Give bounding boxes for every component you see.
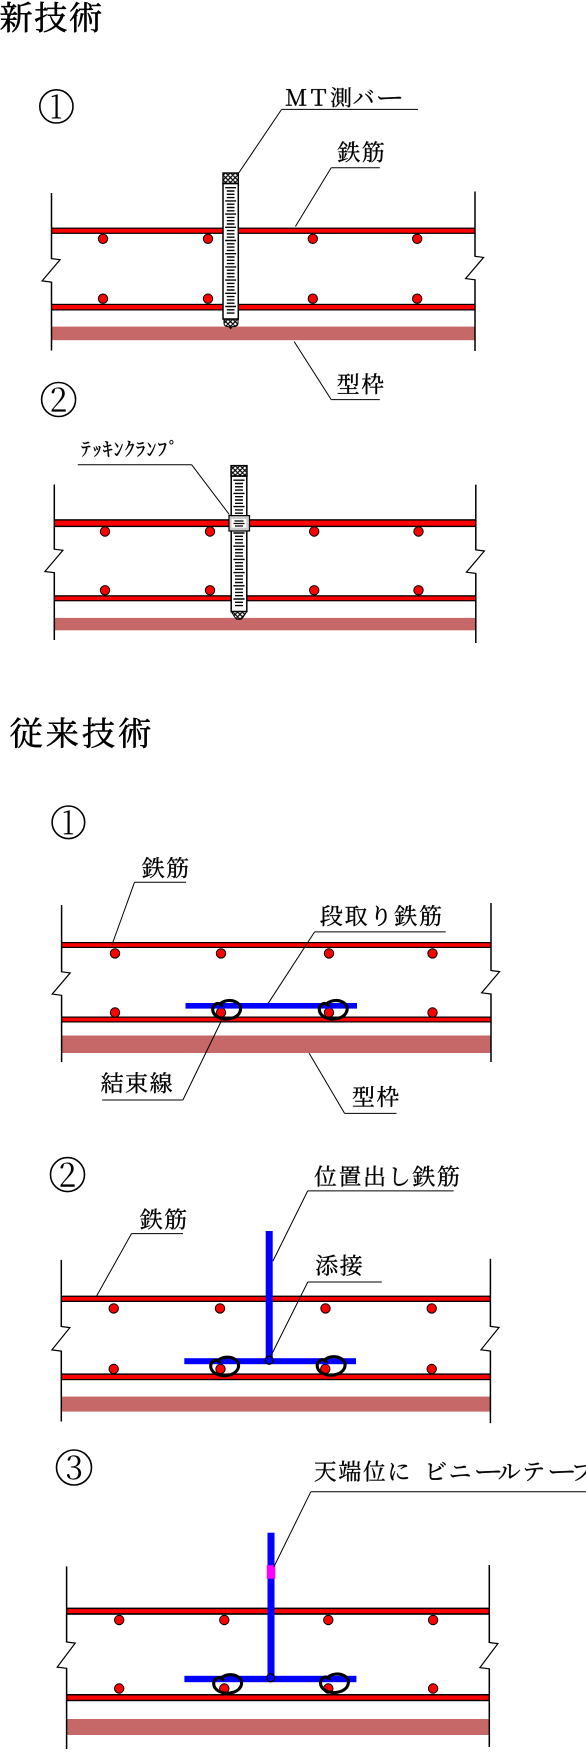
rebar dot bottom row 4 (N2) [414, 586, 423, 595]
left slab edge line (C3) [66, 1566, 68, 1642]
rebar dot bottom row 1 (C1) [110, 1008, 119, 1017]
leader tekkin label C2 [97, 1234, 132, 1296]
rebar dot bottom row 1 (N2) [100, 586, 109, 595]
label dandori tekkin (setup rebar) [320, 905, 441, 926]
left slab edge line (N1) [51, 193, 53, 259]
leader ichidashi label to blue bar [273, 1191, 308, 1261]
right slab edge line (N2) break mark [466, 550, 484, 574]
leader katawaku label C1 [309, 1053, 345, 1113]
label MT measuring bar [286, 87, 401, 107]
leader tekkin label C1 [112, 882, 135, 945]
underline of tekkin label C2 [132, 1233, 184, 1235]
blue position-marking rebar vertical (C2) [266, 1231, 273, 1362]
circled number 3 (conventional) [57, 1450, 92, 1485]
right slab edge line (C3) lower part [488, 1668, 490, 1747]
leader line MT label to bar [239, 109, 282, 173]
circled number 2 (conventional) digit [60, 1163, 74, 1187]
left slab edge line (N1) lower part [51, 282, 53, 351]
formwork band (C1) [62, 1036, 491, 1054]
formwork band (C3) [67, 1719, 490, 1735]
upper rebar line (N2) [54, 519, 476, 527]
circled number 2 (new tech) digit [52, 387, 66, 411]
blue splice bar horizontal (C3) [184, 1676, 356, 1682]
label ichidashi tekkin (position marking rebar) [315, 1166, 459, 1187]
right slab edge line (N1) [474, 192, 476, 257]
right slab edge line (C2) lower part [489, 1351, 491, 1424]
underline of MT label [282, 108, 418, 110]
right slab edge line (C3) [488, 1565, 490, 1643]
rebar dot top row 3 (N2) [310, 527, 319, 536]
circled number 2 (new tech) [42, 383, 76, 417]
rebar dot bottom row 2 (C3) [220, 1684, 229, 1693]
MT bar ruler body [223, 184, 238, 320]
rebar dot bottom row 2 (C2) [216, 1364, 225, 1373]
rebar dot top row 3 (C2) [321, 1304, 330, 1313]
left slab edge line (C3) lower part [66, 1668, 68, 1749]
right slab edge line (C3) break mark [480, 1643, 498, 1669]
rebar dot top row 1 (C3) [115, 1615, 124, 1624]
rebar dot top row 1 (C2) [109, 1304, 118, 1313]
rebar dot bottom row 2 (N2) [205, 586, 214, 595]
tie wire loop right (C2) [317, 1357, 345, 1376]
left slab edge line (N2) lower part [53, 572, 55, 640]
right slab edge line (C1) [490, 903, 492, 971]
rebar dot top row 4 (C2) [427, 1304, 436, 1313]
rebar dot top row 4 (N1) [413, 234, 422, 243]
underline of tekkin label C1 [135, 881, 187, 883]
left slab edge line (C2) lower part [60, 1351, 62, 1422]
tie wire loop left (C1) [213, 1000, 241, 1019]
label katawaku C1 [353, 1086, 399, 1107]
circled number 2 (conventional) [51, 1158, 85, 1192]
splice junction circle (C3) [267, 1674, 275, 1682]
underline of tensetsu label [308, 1281, 382, 1283]
splice junction circle (C2) [265, 1356, 273, 1364]
blue position-marking rebar vertical (C3) [268, 1533, 275, 1682]
clamp bar hatched bottom tip [231, 612, 247, 620]
rebar dot bottom row 3 (C1) [324, 1008, 333, 1017]
tie wire loop right (C3) [321, 1674, 349, 1693]
rebar dot bottom row 2 (N1) [203, 294, 212, 303]
upper rebar line (C1) [62, 942, 491, 948]
right slab edge line (C1) break mark [482, 971, 500, 995]
rebar dot top row 3 (N1) [308, 234, 317, 243]
label tenba-i ni vinyl tape [315, 1461, 586, 1482]
lower rebar line (N1) [52, 304, 475, 311]
rebar dot bottom row 3 (N1) [308, 294, 317, 303]
left slab edge line (N1) break mark [42, 259, 60, 283]
rebar dot top row 1 (N2) [100, 527, 109, 536]
left slab edge line (C1) break mark [52, 972, 70, 996]
clamp bar ruler body [231, 476, 247, 612]
label tensetsu (splice) [316, 1255, 362, 1276]
left slab edge line (N2) break mark [45, 549, 63, 573]
lower rebar line (C1) [62, 1017, 491, 1023]
rebar dot bottom row 1 (N1) [98, 294, 107, 303]
label kessokusen (tie wire) [101, 1072, 172, 1093]
lower rebar line (N2) [54, 595, 476, 601]
rebar dot bottom row 2 (C1) [216, 1008, 225, 1017]
rebar dot bottom row 4 (C2) [427, 1364, 436, 1373]
rebar dot bottom row 3 (C2) [321, 1364, 330, 1373]
tie wire loop left (C2) [211, 1357, 239, 1376]
rebar dot top row 4 (C1) [428, 949, 437, 958]
rebar dot top row 2 (C2) [215, 1304, 224, 1313]
right slab edge line (N1) break mark [466, 256, 484, 280]
underline of dandori label [315, 931, 446, 933]
rebar dot bottom row 3 (N2) [310, 586, 319, 595]
vinyl tape mark (magenta) on blue bar (C3) [267, 1565, 276, 1579]
leader dandori label to blue bar [268, 932, 314, 1003]
rebar dot top row 4 (N2) [414, 527, 423, 536]
upper rebar line (N1) [52, 228, 475, 234]
formwork band (C2) [61, 1397, 490, 1412]
left slab edge line (C2) [60, 1260, 62, 1327]
upper rebar line (C3) [67, 1608, 490, 1615]
rebar dot top row 3 (C1) [324, 949, 333, 958]
label tekkin (rebar) N1 [338, 141, 384, 162]
title shin-gijutsu (new technology) [1, 2, 102, 32]
lower rebar line (C3) [67, 1694, 490, 1701]
left slab edge line (C1) [61, 905, 63, 972]
leader katawaku label to formwork N1 [294, 342, 331, 400]
rebar dot bottom row 1 (C2) [109, 1364, 118, 1373]
right slab edge line (N2) [475, 485, 477, 551]
underline of katawaku label C1 [345, 1112, 397, 1114]
formwork band (N1) [52, 327, 475, 341]
underline of kessokusen label [102, 1099, 183, 1101]
circled number 1 (conventional) digit [64, 810, 73, 834]
rebar dot top row 1 (C1) [110, 949, 119, 958]
MT measuring bar (N1) [223, 173, 238, 329]
rebar dot top row 2 (N1) [203, 234, 212, 243]
left slab edge line (C2) break mark [52, 1327, 70, 1352]
rebar dot top row 1 (N1) [98, 234, 107, 243]
left slab edge line (C1) lower part [61, 995, 63, 1062]
right slab edge line (C1) lower part [490, 994, 492, 1063]
right slab edge line (N1) lower part [474, 279, 476, 351]
rebar dot bottom row 4 (C1) [428, 1008, 437, 1017]
leader vinyl tape label to tape mark [274, 1492, 311, 1567]
leader kessokusen label to loop [183, 1018, 223, 1101]
rebar dot top row 2 (C1) [216, 949, 225, 958]
label katawaku (formwork) N1 [338, 373, 384, 394]
formwork band (N2) [54, 618, 476, 630]
rebar dot bottom row 3 (C3) [324, 1684, 333, 1693]
rebar dot bottom row 4 (C3) [428, 1684, 437, 1693]
underline of ichidashi label [308, 1190, 454, 1192]
lower rebar line (C2) [61, 1373, 490, 1380]
circled number 3 (conventional) digit [67, 1455, 81, 1479]
underline of clamp label [78, 464, 192, 466]
label tekkin clamp (halfwidth kana) [82, 440, 174, 457]
right slab edge line (C2) break mark [481, 1326, 499, 1351]
leader tensetsu label to junction [271, 1282, 308, 1356]
right slab edge line (N2) lower part [475, 573, 477, 643]
underline of vinyl tape label [311, 1491, 586, 1493]
right slab edge line (C2) [489, 1259, 491, 1327]
underline of katawaku label N1 [331, 399, 380, 401]
leader clamp label to clamp [192, 465, 230, 515]
underline of tekkin label N1 [331, 167, 380, 169]
MT bar hatched top cap [223, 173, 238, 184]
rebar dot top row 2 (C3) [220, 1615, 229, 1624]
left slab edge line (N2) [53, 485, 55, 550]
rebar dot bottom row 1 (C3) [115, 1684, 124, 1693]
title juurai-gijutsu (conventional technology) [10, 717, 150, 747]
label tekkin C1 [142, 857, 188, 878]
rebar dot top row 3 (C3) [324, 1615, 333, 1624]
circled number 1 (new tech) [40, 90, 73, 123]
rebar dot bottom row 4 (N1) [413, 294, 422, 303]
MT bar hatched bottom cap with tip [224, 319, 238, 328]
blue splice bar horizontal (C2) [184, 1358, 356, 1364]
leader tekkin label to rebar N1 [295, 168, 331, 227]
upper rebar line (C2) [61, 1296, 490, 1302]
left slab edge line (C3) break mark [57, 1642, 75, 1668]
clamp bar hatched top cap [231, 466, 247, 477]
tie wire loop right (C1) [319, 1000, 347, 1019]
tie wire loop left (C3) [214, 1675, 242, 1694]
rebar dot top row 4 (C3) [428, 1615, 437, 1624]
deck clamp bar (N2) [229, 466, 250, 620]
blue setup rebar bar (C1) [186, 1003, 358, 1009]
rebar dot top row 2 (N2) [205, 527, 214, 536]
clamp gray sleeve on upper rebar [229, 516, 250, 531]
label tekkin C2 [140, 1208, 186, 1229]
circled number 1 (new tech) digit [52, 94, 61, 118]
circled number 1 (conventional) [52, 806, 85, 839]
